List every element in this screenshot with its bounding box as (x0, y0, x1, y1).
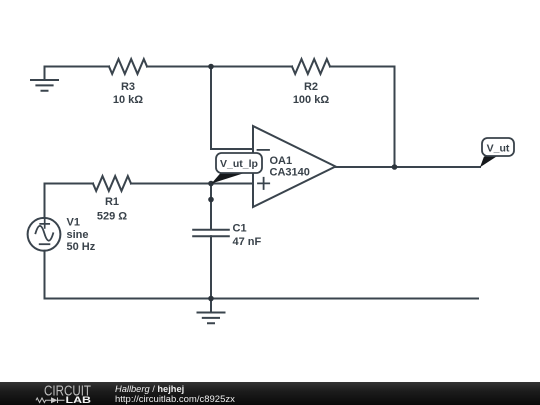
svg-text:47 nF: 47 nF (233, 236, 262, 248)
flag V_ut box (482, 138, 514, 156)
svg-text:R2: R2 (304, 81, 318, 93)
wire inverting input horizontal (211, 148, 253, 150)
svg-text:LAB: LAB (66, 395, 92, 405)
op-amp OA1 (253, 126, 336, 207)
wire top rail right segment (330, 66, 395, 68)
svg-text:50 Hz: 50 Hz (67, 241, 96, 253)
svg-text:CA3140: CA3140 (270, 167, 310, 179)
voltage source V1 (28, 218, 61, 251)
logo schematic glyph (resistor + diode) (36, 398, 65, 404)
wire noninverting rail left segment (45, 183, 94, 185)
svg-text:10 kΩ: 10 kΩ (113, 94, 143, 106)
node dot B (noninverting junction) (208, 181, 214, 187)
svg-text:sine: sine (67, 229, 89, 241)
resistor R2 (292, 59, 330, 74)
wire inverting input vertical (210, 67, 212, 150)
node dot D (bottom rail / ground junction) (208, 296, 214, 302)
resistor R3 (109, 59, 147, 74)
resistor R1 (93, 176, 131, 191)
V1 sine wave (36, 226, 54, 241)
op-amp minus sign (258, 149, 270, 151)
svg-text:529 Ω: 529 Ω (97, 210, 127, 222)
node dot E (output / feedback junction) (392, 164, 398, 170)
ground top-left (31, 67, 58, 91)
svg-text:R3: R3 (121, 81, 135, 93)
wire C1 top vertical (210, 184, 212, 230)
svg-text:Hallberg / hejhej: Hallberg / hejhej (115, 384, 184, 394)
V1 plus sign (40, 220, 49, 228)
svg-text:C1: C1 (233, 222, 247, 234)
wire C1 bottom vertical (210, 236, 212, 298)
op-amp plus sign (258, 178, 269, 189)
capacitor C1 (193, 230, 229, 237)
ground bottom (198, 299, 225, 324)
V1 minus sign (40, 243, 50, 245)
svg-text:R1: R1 (105, 196, 119, 208)
svg-text:V_ut_lp: V_ut_lp (220, 158, 258, 170)
wire feedback vertical (394, 67, 396, 168)
wire left rail vertical top (44, 184, 46, 219)
node dot A (R3/R2 junction) (208, 64, 214, 70)
flag V_ut_lp pointer (212, 173, 247, 184)
svg-text:100 kΩ: 100 kΩ (293, 94, 330, 106)
flag V_ut pointer (480, 157, 497, 168)
footer bar (0, 382, 540, 405)
svg-text:http://circuitlab.com/c8925zx: http://circuitlab.com/c8925zx (115, 394, 235, 405)
wire output (336, 166, 481, 168)
node dot C (wire joint above C1) (208, 197, 214, 203)
svg-text:OA1: OA1 (270, 155, 293, 167)
flag V_ut_lp box (216, 153, 262, 173)
wire noninverting rail right segment (131, 183, 211, 185)
wire top rail middle segment (147, 66, 292, 68)
wire noninverting input (211, 183, 253, 185)
wire bottom rail (45, 298, 479, 300)
svg-text:V_ut: V_ut (487, 143, 510, 155)
logo diode triangle (51, 397, 58, 403)
wire V1 bottom vertical (44, 251, 46, 299)
svg-text:V1: V1 (67, 217, 80, 229)
wire top rail left segment (45, 66, 110, 68)
